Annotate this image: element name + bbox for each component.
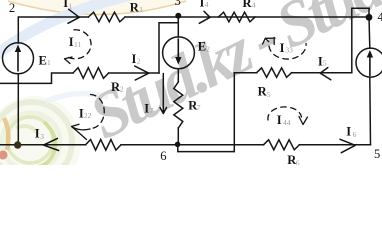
wire row2 left with step xyxy=(0,73,73,83)
svg-text:I: I xyxy=(132,52,137,66)
arrow I6 xyxy=(340,139,355,152)
svg-text:1: 1 xyxy=(69,1,73,10)
light blue diagonal band xyxy=(0,0,215,60)
bottom-left logo rings xyxy=(0,96,81,190)
wire top-right bump xyxy=(352,8,370,72)
arrow I7 xyxy=(160,74,167,114)
wire hairpin from row3 down to node 6 xyxy=(178,73,235,152)
wire bottom right to node 5 corner xyxy=(299,144,370,146)
resistor R1 xyxy=(88,12,125,22)
svg-text:6: 6 xyxy=(160,149,166,163)
svg-text:2: 2 xyxy=(137,56,141,65)
wire node3 L-branch xyxy=(159,16,178,73)
svg-text:I: I xyxy=(35,127,40,141)
resistor R4 xyxy=(218,12,255,22)
resistor R3 unlabeled bottom-left xyxy=(86,140,122,151)
svg-text:2: 2 xyxy=(206,45,210,54)
resistor R2 xyxy=(73,68,109,79)
svg-text:5: 5 xyxy=(267,90,271,99)
svg-text:2: 2 xyxy=(9,1,15,15)
node 6 dot xyxy=(175,142,181,148)
current source J xyxy=(356,48,382,77)
svg-text:4: 4 xyxy=(378,10,382,24)
voltage source E1 xyxy=(3,43,34,74)
wire left rail below E1 down to node 1 xyxy=(17,74,19,145)
top cream arc xyxy=(6,0,188,15)
svg-text:44: 44 xyxy=(283,118,291,127)
svg-text:I: I xyxy=(280,41,285,55)
wire right rail node4 to source xyxy=(368,17,371,48)
svg-text:E: E xyxy=(39,53,47,67)
svg-text:3: 3 xyxy=(40,132,44,141)
svg-text:22: 22 xyxy=(84,111,92,120)
node 3 dot xyxy=(175,13,181,19)
arrow I1 xyxy=(68,9,79,23)
svg-text:I: I xyxy=(144,101,149,115)
wire row2 right to node3 branch xyxy=(109,72,159,74)
wire bottom middle xyxy=(121,144,264,146)
source J arrow xyxy=(369,53,371,76)
svg-text:11: 11 xyxy=(74,40,81,49)
loop arrow I22 dashed xyxy=(90,95,104,129)
svg-text:6: 6 xyxy=(353,130,357,139)
loop arrow I33 dashed xyxy=(269,44,306,60)
wire E2 to R7 xyxy=(177,69,179,82)
wire R7 to node 6 xyxy=(177,128,179,144)
svg-text:1: 1 xyxy=(139,5,143,14)
source E1 arrow xyxy=(17,48,19,72)
svg-text:33: 33 xyxy=(285,45,293,54)
resistor R7 xyxy=(174,82,183,128)
svg-text:5: 5 xyxy=(323,59,327,68)
svg-text:7: 7 xyxy=(197,103,201,112)
voltage source E2 xyxy=(163,37,195,69)
arrow I4 xyxy=(199,11,210,23)
svg-text:4: 4 xyxy=(252,1,256,10)
arrow I5 xyxy=(320,68,331,80)
arrow I2 xyxy=(135,66,149,80)
svg-text:6: 6 xyxy=(296,158,300,165)
svg-text:7: 7 xyxy=(150,106,154,115)
source E2 arrow xyxy=(177,39,179,61)
wire bottom row xyxy=(0,144,86,146)
svg-text:I: I xyxy=(200,0,205,9)
wire row3 xyxy=(234,72,256,74)
svg-text:2: 2 xyxy=(120,85,124,94)
svg-text:I: I xyxy=(63,0,68,10)
wire row3 right xyxy=(292,72,352,74)
wire right rail source to node 5 xyxy=(369,77,372,145)
loop arrow I11 dashed xyxy=(67,30,92,59)
arrow I3 xyxy=(44,138,59,150)
node 4 dot xyxy=(366,14,373,21)
svg-text:4: 4 xyxy=(205,0,209,9)
node 1 dot xyxy=(14,141,21,148)
svg-text:5: 5 xyxy=(374,147,380,161)
svg-text:1: 1 xyxy=(47,58,51,67)
wire top row from node 2 corner to node 4 xyxy=(18,17,88,43)
resistor R6 xyxy=(264,140,300,150)
wire E2 branch stub xyxy=(177,23,179,37)
svg-text:E: E xyxy=(198,39,206,53)
svg-text:I: I xyxy=(346,125,351,139)
svg-text:3: 3 xyxy=(175,0,181,8)
svg-text:I: I xyxy=(277,113,282,127)
resistor R5 xyxy=(257,68,292,77)
decorative watermark background xyxy=(0,0,382,190)
loop arrow I44 dashed xyxy=(268,107,302,120)
